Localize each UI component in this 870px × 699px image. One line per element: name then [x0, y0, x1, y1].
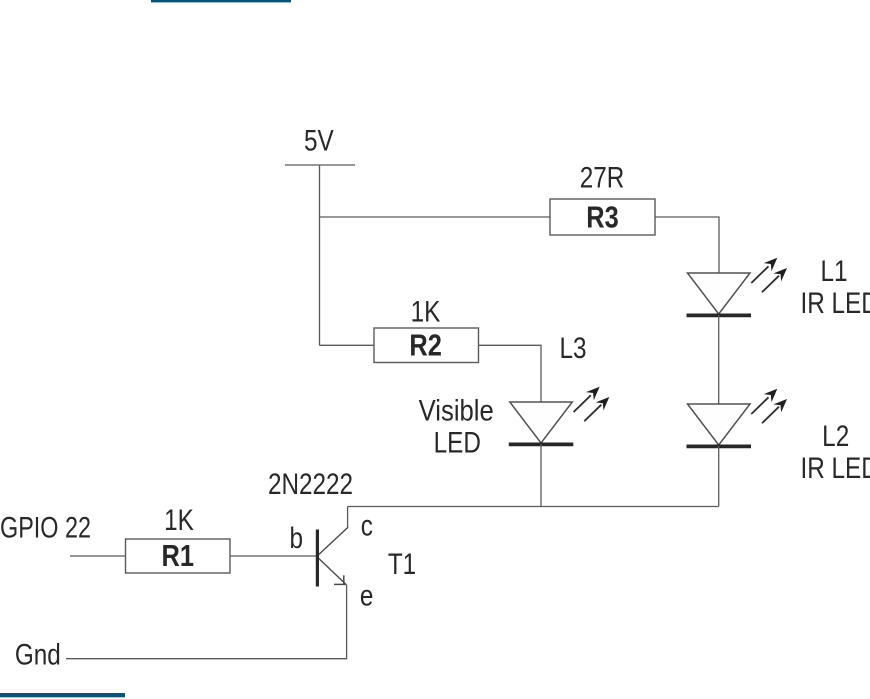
svg-text:L1: L1: [820, 254, 847, 288]
resistor R1: [126, 539, 231, 574]
wire R2 to L3: [479, 345, 542, 402]
node 5V power rail: [285, 123, 355, 165]
svg-text:c: c: [361, 508, 373, 542]
wire collector bus: [348, 506, 719, 508]
wire 5V to R3: [320, 216, 551, 218]
svg-text:GPIO 22: GPIO 22: [0, 511, 91, 544]
wire R3 to L1 corner: [655, 217, 719, 274]
wire 5V to R2: [320, 344, 375, 346]
wire emitter down: [346, 584, 348, 659]
svg-text:IR LED: IR LED: [801, 451, 870, 485]
LED L3 (visible): [509, 383, 613, 445]
svg-text:1K: 1K: [411, 294, 441, 328]
svg-text:T1: T1: [388, 547, 416, 581]
svg-text:e: e: [360, 578, 374, 612]
wire to Gnd: [66, 658, 347, 660]
LED L2: [687, 385, 791, 447]
transistor T1: [317, 507, 348, 587]
svg-text:R1: R1: [162, 539, 194, 574]
wire L1 to L2: [718, 315, 720, 405]
svg-text:R2: R2: [409, 328, 441, 363]
wire L3 to collector bus: [540, 444, 542, 507]
svg-text:Gnd: Gnd: [15, 637, 61, 671]
svg-text:IR LED: IR LED: [801, 286, 870, 320]
svg-text:5V: 5V: [304, 123, 334, 157]
wire 5V stem down: [319, 165, 321, 346]
svg-text:b: b: [290, 521, 304, 555]
wire GPIO to R1: [70, 555, 126, 557]
svg-text:LED: LED: [434, 425, 481, 459]
svg-text:Visible: Visible: [419, 394, 494, 427]
resistor R2: [374, 328, 479, 363]
wire R1 to base: [230, 555, 316, 557]
svg-text:L3: L3: [559, 331, 586, 365]
svg-text:L2: L2: [822, 419, 849, 453]
svg-text:27R: 27R: [580, 160, 625, 194]
LED L1: [687, 254, 791, 316]
svg-text:R3: R3: [586, 200, 618, 235]
wire L2 to collector bus: [718, 446, 720, 507]
svg-text:2N2222: 2N2222: [268, 467, 353, 501]
svg-text:1K: 1K: [164, 503, 194, 537]
resistor R3: [550, 199, 655, 235]
